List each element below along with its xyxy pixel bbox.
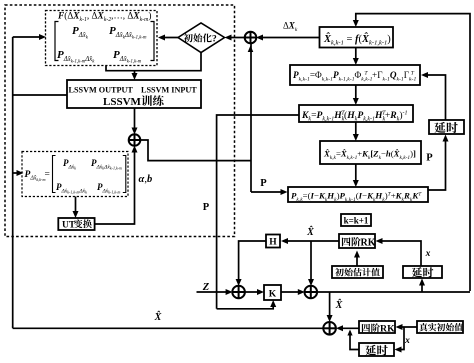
svg-text:K: K	[269, 290, 277, 300]
wire: covariance update right edge up into delay (arrow up)	[428, 137, 446, 190]
box: covariance prediction P=Phi P Phi + Gamma Q Gamma	[290, 65, 420, 85]
svg-text:LSSVM: LSSVM	[103, 96, 142, 108]
wire: branch down into sum 2 (arrow down)	[310, 241, 312, 284]
svg-text:k=k+1: k=k+1	[344, 216, 369, 226]
wire: sum node to diamond (arrow left into diamond)	[227, 37, 246, 39]
svg-text:PΔx̂​k-1,k-m​Δx̂​k​: PΔx̂​k-1,k-m​Δx̂​k​	[57, 49, 95, 64]
svg-text:LSSVM OUTPUT: LSSVM OUTPUT	[69, 86, 134, 95]
wire: H output left and down into sum 1 (arrow down)	[239, 241, 266, 284]
box: H measurement matrix	[266, 235, 280, 248]
wire: Z into sum 1 (arrow right)	[197, 291, 231, 293]
svg-text:x: x	[404, 336, 410, 346]
svg-text:X̂: X̂	[306, 225, 314, 238]
svg-text:α,b: α,b	[139, 174, 153, 185]
box: state update X=X+K[Z-h(X)]	[320, 141, 421, 164]
svg-text:H: H	[269, 238, 277, 248]
svg-text:P: P	[426, 153, 433, 164]
box: UT transform	[58, 218, 94, 230]
wire: RK true output into sum 3 (arrow left)	[338, 327, 359, 329]
svg-text:Pk,k-1​=Φk,k-1​Pk-1,k-1​Φk,k-1: Pk,k-1​=Φk,k-1​Pk-1,k-1​Φk,k-1T​+Γk-1​Qk…	[293, 70, 416, 82]
node dX covariance dashed box with 2x2 matrix	[22, 152, 128, 197]
wire: sum 2 output right to feedback rail	[317, 291, 470, 293]
wire: initial estimate up into RK (arrow up)	[356, 253, 358, 266]
wire: error output long line to left rail	[13, 327, 324, 329]
wire: delay up into covariance prediction right edge (arrow left)	[424, 75, 446, 120]
svg-text:RK: RK	[380, 324, 395, 335]
svg-text:P: P	[203, 202, 210, 213]
wire: gain down to state update (arrow down)	[355, 122, 357, 139]
wire: LSSVM bottom into sum (arrow down)	[134, 108, 136, 132]
svg-text:LSSVM INPUT: LSSVM INPUT	[141, 86, 197, 95]
wire: delay up into RK right edge (arrow left)	[378, 241, 421, 266]
wire: K box into sum 2 (arrow right)	[281, 291, 302, 293]
wire: tap down into bottom delay (arrow left into delay)	[397, 327, 405, 350]
wire: branch down into sum 3 with X-hat label (arrow down)	[329, 292, 331, 320]
svg-text:PΔx̂​k​Δx̂​k-1,k-m​: PΔx̂​k​Δx̂​k-1,k-m​	[91, 158, 122, 172]
wire: f-box down to covariance prediction (arrow down)	[355, 48, 357, 63]
svg-text:PΔx̂​k-1,k-m​Δx̂​k​: PΔx̂​k-1,k-m​Δx̂​k​	[56, 182, 87, 196]
wire: rail into F-box (arrow right)	[13, 36, 43, 38]
box: fourth-order RK integrator (estimate)	[339, 234, 375, 248]
wire: F-box bottom / diamond bottom to LSSVM input	[106, 53, 201, 71]
box: state prediction X=f(X)	[320, 27, 394, 48]
wire: sum output right and down to P rail	[140, 140, 251, 161]
box: covariance update P=(I-KH)P(I-KH)+KRK	[288, 187, 428, 202]
svg-text:RK: RK	[361, 238, 376, 249]
box: delay (right side P loop)	[429, 120, 464, 134]
svg-text:PΔx̂​k​: PΔx̂​k​	[63, 158, 76, 171]
wire: branch up into middle delay (arrow up)	[421, 281, 423, 293]
wire: vertical into top sum node (arrow up) and into P update box (arrow right)	[250, 43, 252, 192]
left rail wire from bottom error up the left side	[12, 37, 14, 327]
svg-text:X̂: X̂	[335, 298, 343, 311]
wire: bottom delay output merges into RK output line (arrow up)	[350, 332, 359, 350]
svg-text:ΔXk​: ΔXk​	[283, 21, 298, 33]
wire: RK output left into H (arrow left)	[283, 240, 339, 242]
box: true initial value	[417, 321, 463, 333]
sum node 2 (state correction)	[305, 286, 318, 299]
wire: f-box to sum node with label dX_k (arrow left)	[258, 37, 320, 39]
box: fourth-order RK integrator (true)	[359, 321, 395, 333]
wire: diamond to F-box (arrow left into F-box)	[160, 37, 178, 39]
outer dashed boundary of LSSVM prediction block	[5, 5, 235, 237]
decision diamond: initialize?	[178, 23, 225, 53]
svg-text:X̂: X̂	[154, 310, 162, 323]
box: LSSVM training	[67, 80, 201, 108]
box: delay (middle)	[403, 266, 442, 278]
sum node 3 (error computation)	[323, 322, 336, 335]
wire: P under-path into K feedback box (arrow up)	[217, 303, 274, 309]
node F-box: dashed box F(dX...) with covariance matrix	[46, 11, 158, 66]
wire: P rail branch up into gain box K	[217, 115, 299, 309]
svg-text:X̂k,k​=X̂k,k-1​+Kk​[Zk​−h(X̂k,: X̂k,k​=X̂k,k-1​+Kk​[Zk​−h(X̂k,k-1​)]	[323, 148, 416, 161]
svg-text:X̂k,k-1​ = f(X̂k-1,k-1​): X̂k,k-1​ = f(X̂k-1,k-1​)	[323, 32, 391, 46]
wire: sum 1 into K box (arrow right)	[245, 291, 262, 293]
svg-text:PΔx̂​k-1,k-m​: PΔx̂​k-1,k-m​	[113, 49, 142, 64]
svg-text:F(ΔXk-1​, ΔXk-2​,…, ΔXk-m​): F(ΔXk-1​, ΔXk-2​,…, ΔXk-m​)	[57, 11, 151, 23]
sum node 1 (innovation)	[232, 286, 245, 299]
svg-text:UT: UT	[62, 221, 76, 231]
sum node top right (state prediction minus feedback)	[245, 32, 257, 44]
wire: covariance prediction down to gain (arrow down)	[355, 85, 357, 103]
svg-text:PΔx̂​k,k-m​: PΔx̂​k,k-m​	[25, 170, 46, 183]
wire: rail into dX covariance dashed box (arrow right)	[13, 172, 21, 174]
wire: true initial value into RK (arrow left)	[398, 326, 418, 328]
wire: drop into LSSVM top (arrow down)	[134, 71, 136, 78]
svg-text:Pk,k​=(I−Kk​Hk​)Pk,k-1​(I−Kk​H: Pk,k​=(I−Kk​Hk​)Pk,k-1​(I−Kk​Hk​)T​+Kk​R…	[291, 191, 422, 203]
box: delay (bottom)	[359, 343, 394, 356]
wire: covariance box to UT transform (arrow down)	[75, 197, 77, 216]
box: K gain multiply	[264, 285, 281, 300]
svg-text:P: P	[260, 178, 267, 189]
svg-text:PΔx̂​k​: PΔx̂​k​	[72, 25, 89, 40]
svg-text:?: ?	[212, 35, 217, 45]
box: initial estimate value	[332, 266, 383, 278]
wire: rail to LSSVM left edge	[13, 94, 67, 96]
svg-text:PΔx̂​k​Δx̂​k-1,k-m​: PΔx̂​k​Δx̂​k-1,k-m​	[109, 25, 147, 40]
wire: top feedback from output rail into f-box (arrow down)	[356, 14, 470, 291]
wire: UT transform up into sum (arrow up)	[95, 148, 135, 224]
svg-text:x: x	[425, 249, 431, 259]
svg-text:PΔx̂​k-1,k-m​: PΔx̂​k-1,k-m​	[97, 182, 120, 196]
box: Kalman gain K	[299, 105, 413, 122]
box: k=k+1 counter	[341, 214, 371, 226]
svg-text:Kk​=Pk,k-1​HkT​(Hk​Pk,k-1​HkT​: Kk​=Pk,k-1​HkT​(Hk​Pk,k-1​HkT​+Rk​)-1​	[301, 110, 408, 123]
wire: state update down to covariance update (arrow down)	[355, 164, 357, 185]
svg-text:=: =	[45, 170, 50, 180]
